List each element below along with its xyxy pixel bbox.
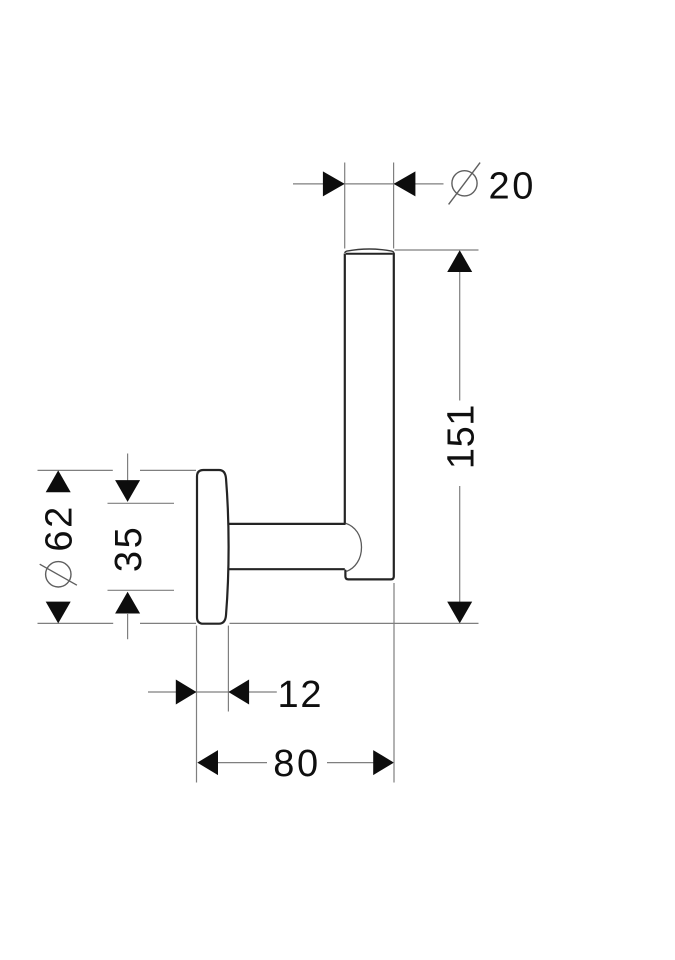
svg-text:20: 20 <box>489 165 536 207</box>
svg-text:35: 35 <box>108 525 150 572</box>
extension line top of 151 <box>395 249 479 251</box>
extension line 35 upper <box>108 502 175 504</box>
svg-text:12: 12 <box>278 674 324 716</box>
svg-text:151: 151 <box>441 404 483 469</box>
arrow 151 bottom <box>447 602 472 624</box>
label 12 <box>278 674 324 716</box>
extension line 12 right <box>227 626 229 712</box>
arrow 35 top (pointing down) <box>115 480 140 502</box>
arrow 151 top <box>447 250 472 272</box>
diameter symbol of O20 <box>449 163 481 205</box>
arrow 12 right (outside, pointing left) <box>228 680 249 705</box>
wall plate outline <box>197 470 229 624</box>
arrow O62 bottom <box>46 602 71 624</box>
dimension 35 bottom tail <box>127 613 129 639</box>
dimension line 151 upper segment <box>459 271 461 401</box>
label 80 <box>273 743 320 785</box>
extension line right of tube (for O20) <box>393 163 395 249</box>
label 20 <box>489 165 536 207</box>
label 35 (rotated) <box>108 525 150 572</box>
arrow 80 right (pointing right) <box>373 750 394 775</box>
dimension line O20 <box>293 183 444 185</box>
dimension 35 top tail <box>127 454 129 483</box>
dimension line 151 lower segment <box>459 486 461 604</box>
arrow O20 right <box>394 171 416 196</box>
extension line 12 left / 80 left (below plate) <box>196 626 198 783</box>
tube outline <box>345 249 394 579</box>
arrow 12 left (outside, pointing right) <box>176 680 197 705</box>
extension line 35 lower <box>108 589 175 591</box>
svg-text:80: 80 <box>273 743 320 785</box>
extension line 80 right (below tube) <box>393 583 395 783</box>
tube top seam line <box>346 253 393 255</box>
dimension line 80 right segment <box>327 762 374 764</box>
arm bottom edge <box>228 568 345 570</box>
bottom extension line y623 (long, gaps at 35 tail) <box>38 622 479 624</box>
diameter symbol of O62 (rotated) <box>40 562 77 587</box>
svg-text:62: 62 <box>39 504 81 551</box>
label 151 (rotated) <box>441 404 483 469</box>
arrow O20 left <box>323 171 345 196</box>
arrow O62 top <box>46 470 71 492</box>
extension line left of tube (for O20) <box>344 163 346 249</box>
arrow 80 left (pointing left) <box>197 750 218 775</box>
label 62 (rotated) <box>39 504 81 551</box>
arrow 35 bottom (pointing up) <box>115 592 140 614</box>
arm top edge <box>228 523 346 525</box>
dimension line 12 <box>148 691 277 693</box>
dimension line 80 left segment <box>218 762 267 764</box>
arm to tube weld curve <box>346 523 362 571</box>
extension line O62 top (two segments, gap at 35 tail) <box>38 469 197 471</box>
